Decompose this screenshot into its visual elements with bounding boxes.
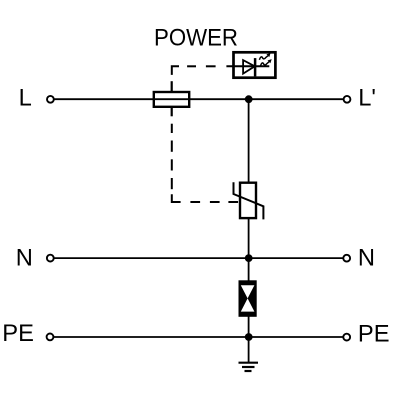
svg-text:PE: PE: [2, 321, 34, 347]
svg-text:L': L': [358, 85, 376, 111]
svg-text:PE: PE: [358, 322, 390, 348]
svg-text:L: L: [19, 85, 32, 111]
svg-text:N: N: [16, 246, 33, 272]
svg-text:POWER: POWER: [154, 26, 238, 52]
svg-text:N: N: [358, 246, 375, 272]
